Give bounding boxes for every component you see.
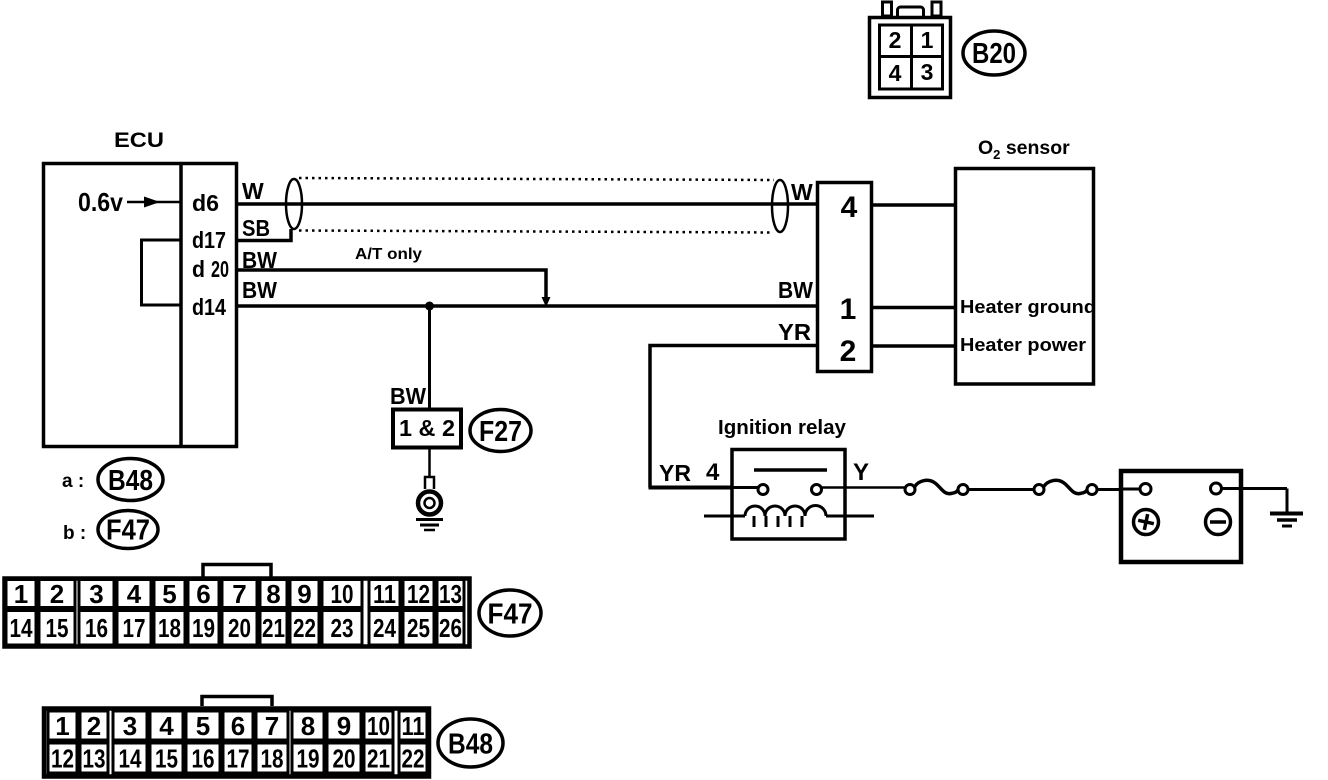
svg-text:Y: Y <box>853 459 869 486</box>
svg-text:O2 sensor: O2 sensor <box>978 137 1070 162</box>
svg-text:12: 12 <box>407 579 430 609</box>
svg-text:0.6v: 0.6v <box>78 187 123 217</box>
svg-text:8: 8 <box>266 579 280 609</box>
svg-text:18: 18 <box>158 613 181 643</box>
svg-text:2: 2 <box>50 579 64 609</box>
svg-text:B20: B20 <box>972 38 1016 70</box>
svg-text:F47: F47 <box>106 515 150 547</box>
svg-text:9: 9 <box>337 711 351 741</box>
svg-text:25: 25 <box>407 613 430 643</box>
svg-text:22: 22 <box>293 613 316 643</box>
svg-text:a :: a : <box>62 471 84 492</box>
svg-text:F27: F27 <box>479 416 522 448</box>
svg-text:10: 10 <box>331 579 354 609</box>
svg-text:3: 3 <box>921 59 934 85</box>
svg-text:4: 4 <box>889 60 902 86</box>
svg-text:Heater power: Heater power <box>960 335 1086 355</box>
svg-text:d: d <box>192 256 205 282</box>
svg-text:1: 1 <box>921 27 934 53</box>
svg-text:1 & 2: 1 & 2 <box>399 415 455 441</box>
svg-text:4: 4 <box>127 579 142 609</box>
svg-text:11: 11 <box>402 711 425 741</box>
svg-text:B48: B48 <box>448 729 493 761</box>
svg-text:BW: BW <box>242 247 277 273</box>
svg-text:B48: B48 <box>108 465 153 497</box>
svg-text:23: 23 <box>331 613 354 643</box>
svg-text:8: 8 <box>301 711 315 741</box>
svg-text:F47: F47 <box>488 599 533 631</box>
svg-text:4: 4 <box>159 711 174 741</box>
svg-text:24: 24 <box>373 613 396 643</box>
svg-text:7: 7 <box>232 579 246 609</box>
svg-text:1: 1 <box>14 579 28 609</box>
svg-text:SB: SB <box>242 215 270 241</box>
svg-text:YR: YR <box>659 460 691 486</box>
svg-text:15: 15 <box>46 613 69 643</box>
svg-text:17: 17 <box>227 744 250 774</box>
svg-text:6: 6 <box>196 579 210 609</box>
svg-text:b :: b : <box>63 523 86 544</box>
svg-text:Heater ground: Heater ground <box>960 297 1096 317</box>
svg-text:13: 13 <box>439 579 462 609</box>
svg-text:20: 20 <box>211 256 229 282</box>
svg-text:15: 15 <box>155 744 178 774</box>
svg-text:14: 14 <box>119 744 142 774</box>
svg-text:16: 16 <box>85 613 108 643</box>
svg-text:6: 6 <box>231 711 245 741</box>
svg-text:20: 20 <box>333 744 356 774</box>
svg-text:4: 4 <box>706 459 720 486</box>
svg-text:ECU: ECU <box>114 129 164 152</box>
svg-text:3: 3 <box>123 711 137 741</box>
svg-text:21: 21 <box>262 613 285 643</box>
svg-text:W: W <box>791 179 813 205</box>
svg-text:19: 19 <box>297 744 320 774</box>
svg-text:Ignition relay: Ignition relay <box>718 417 847 439</box>
svg-text:d6: d6 <box>192 190 219 216</box>
svg-text:BW: BW <box>242 277 277 303</box>
svg-text:1: 1 <box>55 711 69 741</box>
svg-text:20: 20 <box>228 613 251 643</box>
svg-text:YR: YR <box>778 319 811 345</box>
svg-text:d17: d17 <box>192 227 226 253</box>
svg-text:11: 11 <box>373 579 396 609</box>
svg-text:A/T only: A/T only <box>355 246 422 263</box>
svg-text:10: 10 <box>367 711 390 741</box>
svg-text:2: 2 <box>840 335 857 368</box>
svg-text:17: 17 <box>123 613 146 643</box>
svg-text:14: 14 <box>10 613 33 643</box>
svg-text:18: 18 <box>261 744 284 774</box>
svg-text:1: 1 <box>840 293 857 326</box>
svg-text:19: 19 <box>192 613 215 643</box>
svg-text:9: 9 <box>297 579 311 609</box>
svg-text:12: 12 <box>51 744 74 774</box>
svg-text:22: 22 <box>402 744 425 774</box>
svg-text:16: 16 <box>192 744 215 774</box>
svg-text:13: 13 <box>83 744 106 774</box>
svg-text:d14: d14 <box>192 294 226 320</box>
svg-text:7: 7 <box>265 711 279 741</box>
svg-text:26: 26 <box>439 613 462 643</box>
svg-text:BW: BW <box>390 383 426 409</box>
svg-text:5: 5 <box>196 711 210 741</box>
svg-text:4: 4 <box>841 191 858 224</box>
svg-text:W: W <box>242 178 264 204</box>
svg-text:21: 21 <box>367 744 390 774</box>
svg-text:5: 5 <box>162 579 176 609</box>
svg-text:BW: BW <box>778 277 813 303</box>
svg-text:2: 2 <box>87 711 101 741</box>
svg-text:3: 3 <box>89 579 103 609</box>
svg-text:2: 2 <box>889 27 902 53</box>
